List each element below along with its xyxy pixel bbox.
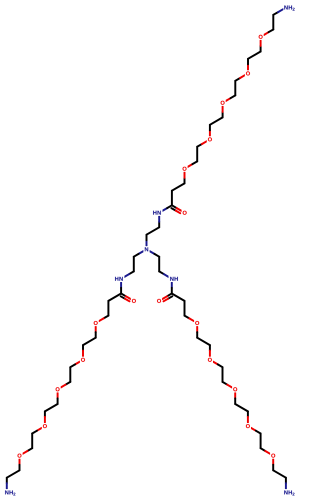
wire bond B16 [44, 411, 46, 417]
wire bond A21 [272, 15, 274, 30]
wire bond B18 [31, 434, 33, 449]
wire bond C22 [285, 478, 287, 484]
double bond C=O arm B [121, 294, 126, 297]
node O3 arm C O label [232, 386, 238, 392]
wire bond A15 [234, 81, 236, 96]
node carbonyl O arm A O label [182, 210, 188, 216]
wire bond B12 [69, 367, 71, 382]
wire bond A17 [247, 64, 249, 70]
node terminal NH2 arm C NH2 label [283, 489, 296, 496]
wire bond B21 [7, 470, 20, 477]
node O2 arm C O label [207, 357, 213, 363]
wire bond A1 [146, 240, 148, 246]
wire bond B19 [27, 448, 32, 451]
wire bond B15 [45, 404, 58, 411]
node terminal NH2 arm A NH2 label [283, 4, 296, 11]
wire bond B5 [108, 294, 121, 301]
node amide NH arm A label [152, 209, 163, 216]
wire bond A20 [264, 32, 269, 35]
node O4 arm C O label [245, 423, 251, 429]
wire bond A8 [188, 164, 193, 167]
node carbonyl O arm B O label [131, 298, 137, 304]
wire bond B1 [139, 251, 144, 254]
wire bond C1 [150, 251, 155, 254]
wire bond C17 [251, 428, 256, 431]
node O2 arm B O label [80, 357, 86, 363]
wire bond A5 [171, 191, 173, 206]
wire bond B8 [95, 327, 97, 333]
wire bond C5 [172, 294, 185, 301]
wire bond C6 [184, 301, 186, 316]
wire bond C7 [185, 316, 190, 319]
wire bond C19 [261, 448, 266, 451]
wire bond C2 [158, 257, 160, 272]
double bond C=O arm C [167, 294, 172, 297]
node central amine N label [143, 246, 149, 252]
wire bond C8 [196, 327, 198, 333]
node O1 arm B O label [93, 320, 99, 326]
wire bond B4 [120, 282, 122, 288]
node terminal NH2 arm B NH2 label [4, 489, 17, 496]
wire bond A12 [210, 117, 223, 124]
wire bond C9 [197, 338, 210, 345]
wire bond C11 [213, 362, 218, 365]
wire bond A13 [222, 112, 224, 118]
wire bond B3 [129, 271, 134, 274]
node O4 arm B O label [42, 423, 48, 429]
node amide NH arm C label [169, 276, 180, 283]
wire bond B9 [83, 338, 96, 345]
wire bond C14 [234, 393, 236, 399]
wire bond B14 [57, 393, 59, 399]
wire bond C21 [273, 470, 286, 477]
wire bond B11 [75, 362, 80, 365]
wire bond A18 [248, 52, 261, 59]
wire bond C12 [222, 367, 224, 382]
node O3 arm A O label [220, 100, 226, 106]
wire bond A10 [197, 144, 202, 147]
node O4 arm A O label [207, 136, 213, 142]
wire bond C20 [272, 459, 274, 465]
node O1 arm A O label [258, 34, 264, 40]
node O3 arm B O label [55, 386, 61, 392]
wire bond C16 [247, 411, 249, 417]
node O5 arm A O label [181, 166, 187, 172]
node carbonyl O arm C O label [156, 298, 162, 304]
wire bond C3 [159, 271, 164, 274]
wire bond B7 [104, 316, 109, 319]
wire bond B2 [133, 257, 135, 272]
node O5 arm B O label [16, 453, 22, 459]
node O5 arm C O label [270, 453, 276, 459]
wire bond C4 [171, 282, 173, 288]
wire bond B17 [37, 428, 42, 431]
wire bond A9 [196, 147, 198, 162]
wire bond A7 [184, 178, 186, 184]
wire bond C10 [209, 345, 211, 351]
wire bond A11 [209, 130, 211, 136]
node amide NH arm B label [113, 276, 124, 283]
wire bond A19 [260, 46, 262, 52]
wire bond C18 [260, 434, 262, 449]
wire bond A22 [273, 12, 278, 15]
wire bond A14 [226, 98, 231, 101]
wire bond B13 [66, 382, 71, 385]
wire bond B20 [19, 459, 21, 465]
wire bond A4 [162, 208, 167, 211]
wire bond C13 [223, 382, 228, 385]
wire bond A16 [235, 78, 240, 81]
wire bond C15 [235, 404, 248, 411]
double bond C=O arm A [172, 205, 177, 208]
wire bond B22 [6, 478, 8, 484]
wire bond A6 [172, 183, 185, 190]
wire bond A2 [147, 227, 160, 234]
node O1 arm C O label [194, 320, 200, 326]
wire bond B10 [82, 345, 84, 351]
wire bond B6 [107, 301, 109, 316]
wire bond A3 [158, 222, 160, 228]
node O2 arm A O label [245, 70, 251, 76]
